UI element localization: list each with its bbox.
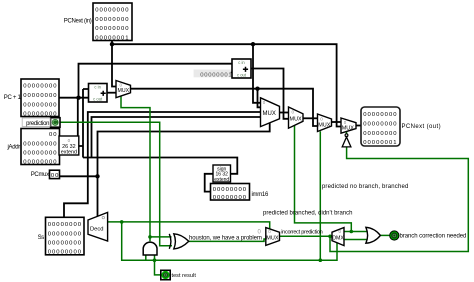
mux MUX_E (341, 118, 356, 133)
adder U1 (PC+1 + extended jAddr) (89, 84, 108, 103)
wire: MUX_B in3 line, vertical down then right to imm16 input (92, 117, 261, 192)
green wire: MUX_F out to DMX input (280, 235, 333, 237)
mux MUX_B (4 inputs) (261, 98, 280, 127)
svg-text:00000000: 00000000 (213, 187, 247, 193)
demux DMX (332, 228, 344, 246)
svg-text:c in: c in (94, 85, 101, 90)
wire: MUX_B in2 line, vertical down to Ss box (64, 112, 261, 217)
wire: branch down at x=256.5 to MUX_B in1 (258, 89, 261, 108)
svg-text:00000000: 00000000 (23, 112, 57, 118)
or gate (366, 227, 381, 243)
svg-text:MUX: MUX (266, 236, 279, 242)
svg-text:prediction: prediction (26, 121, 49, 127)
wire: PC+1 branch up to adder2 upper input (78, 64, 232, 146)
mux MUX_D (318, 114, 332, 132)
green wire: XOR out to MUX_F in1 (189, 239, 266, 241)
svg-text:test result: test result (172, 273, 197, 279)
bit extender 26 to 32 (59, 136, 79, 156)
svg-text:predicted branched, didn't bra: predicted branched, didn't branch (263, 210, 353, 216)
green wire: NOT out to MUX_E select (346, 132, 348, 134)
wire: MUX_E out to PCNext(out) (356, 125, 361, 127)
svg-text:DMX: DMX (332, 235, 344, 241)
svg-text:00000000: 00000000 (95, 26, 129, 32)
wire: adder2 out down to MUX_C in1 (251, 69, 289, 119)
wire: MUX_B out to MUX_C in0 (280, 112, 289, 114)
wire: PCmux to big loop: MUX_B select and Decd input (60, 123, 270, 216)
wire: MUX_D out to MUX_E in0 (332, 121, 342, 123)
svg-text:00000001: 00000001 (95, 35, 129, 41)
mux MUX_C (289, 107, 304, 128)
wire: MUX_C out to MUX_D in0 (303, 117, 318, 119)
xor gate (facing right) (169, 234, 189, 249)
svg-text:c out: c out (93, 97, 103, 102)
svg-text:00000000: 00000000 (23, 141, 57, 147)
input pin PC + 1 (21, 79, 59, 118)
svg-text:00000000: 00000000 (48, 241, 82, 247)
junction at (78.5,97.7) (76, 96, 80, 100)
junction at (112,44) (110, 42, 114, 46)
svg-text:Ss: Ss (38, 235, 45, 241)
svg-text:00000000: 00000000 (363, 121, 397, 127)
green wire: DMX out0 to OR in0 and loop to MUX_C select (295, 126, 368, 232)
green wire: MUX_D select from bottom run (319, 131, 321, 260)
wire: MUX_A out long run to MUX_D in1 (131, 89, 318, 126)
junction at Decd branch (120, 220, 124, 224)
label prediction (22, 118, 50, 126)
adder U2 (PC+1 + 1) (232, 59, 251, 78)
input pin PCmux (2 bits) (50, 170, 60, 179)
junction at (351.3,231.5) (350, 230, 354, 234)
svg-text:00000000: 00000000 (95, 17, 129, 23)
svg-text:predicted no branch, branched: predicted no branch, branched (322, 184, 409, 190)
decoder Decd (88, 212, 108, 241)
wire: drop at x=255 to MUX_B in0 (253, 44, 261, 103)
junction MUX_D select on bottom run (319, 258, 323, 262)
svg-text:PCNext (in): PCNext (in) (64, 19, 92, 25)
junction at (256.5,88.7) (255, 87, 259, 91)
svg-text:c in: c in (238, 60, 245, 65)
svg-text:MUX: MUX (118, 88, 130, 94)
input pin imm16 (211, 184, 250, 202)
input pin PCNext (in) (93, 3, 132, 41)
junction at (330,236.3) (328, 235, 332, 239)
svg-text:PCNext (out): PCNext (out) (402, 124, 441, 130)
output LED test result (161, 270, 170, 279)
mux MUX_A (116, 81, 131, 98)
green wire: AND inputs from bottom run (146, 255, 155, 260)
svg-text:00000000: 00000000 (23, 159, 57, 165)
svg-text:00000000: 00000000 (363, 112, 397, 118)
svg-text:00000000: 00000000 (95, 7, 129, 13)
svg-text:MUX: MUX (342, 126, 355, 132)
svg-text:00000000: 00000000 (23, 84, 57, 90)
svg-text:00000001: 00000001 (200, 72, 232, 78)
svg-text:00000000: 00000000 (23, 93, 57, 99)
green wire: DMX out1 to OR in1 (344, 239, 367, 241)
wire: PC+1 to adder1 lower input (59, 97, 89, 99)
not gate (inverter, facing up) (342, 134, 351, 147)
constant 00000001 (194, 70, 234, 79)
wire: adder1 out to MUX_A in1 (107, 92, 116, 94)
svg-text:00000000: 00000000 (48, 250, 82, 256)
wire: top long run y=44 to MUX_E in1 (112, 44, 341, 126)
input pin prediction (51, 118, 61, 128)
svg-text:PCmux: PCmux (31, 172, 49, 178)
svg-text:MUX: MUX (318, 123, 331, 129)
sign extender 16 to 32 (213, 165, 231, 183)
wire: PCNext(in) down to MUX_A in0 (112, 40, 116, 87)
wire: branch down x=86.5 to long mid horizontal to sign-extend out (83, 158, 237, 174)
green wire: big loop incorrect prediction to NOT gate (330, 147, 468, 252)
svg-text:extend: extend (214, 177, 229, 183)
svg-text:00000000: 00000000 (23, 102, 57, 108)
svg-text:MUX: MUX (290, 116, 303, 122)
svg-text:incorrect prediction: incorrect prediction (281, 230, 322, 236)
svg-text:extend: extend (61, 150, 77, 156)
green wire: Decd branch down to bottom long run, DMX select (122, 222, 337, 260)
svg-text:imm16: imm16 (252, 192, 269, 198)
green wire: MUX_A select down to AND output node, over to XOR upper input (121, 97, 172, 242)
output pin PCNext (out) (361, 107, 400, 146)
svg-text:houston, we have a problem: houston, we have a problem (189, 235, 262, 241)
svg-text:MUX: MUX (263, 111, 276, 117)
svg-text:00000000: 00000000 (48, 231, 82, 237)
svg-text:00000000: 00000000 (23, 151, 57, 157)
and gate (facing up) (143, 242, 157, 255)
svg-text:Decd: Decd (90, 226, 104, 232)
output LED branch correction needed (390, 231, 399, 240)
svg-text:c out: c out (237, 72, 247, 77)
mux MUX_F (266, 228, 280, 246)
green wire: OR out to LED (380, 234, 390, 236)
svg-text:00000000: 00000000 (48, 222, 82, 228)
svg-text:00000000: 00000000 (213, 195, 247, 201)
svg-text:00: 00 (51, 173, 60, 179)
junction AND output node (148, 235, 152, 239)
svg-text:jAddr: jAddr (6, 145, 20, 151)
input pin jAddr (26 bits) (21, 129, 60, 166)
green wire: Decd out to MUX_F select (top) (108, 222, 270, 229)
svg-text:00000000: 00000000 (363, 131, 397, 137)
input pin Ss (46, 217, 85, 255)
junction and branch to test result LED (153, 258, 157, 262)
junction at (97.5,176.3) (95, 174, 99, 178)
svg-text:00000001: 00000001 (363, 140, 397, 146)
svg-text:branch correction needed: branch correction needed (400, 234, 467, 240)
junction at (255,44) (251, 42, 255, 46)
svg-text:00: 00 (49, 132, 58, 138)
wire: extend26 out up to adder1 upper input (79, 89, 89, 158)
svg-text:PC + 1: PC + 1 (4, 95, 22, 101)
green wire: prediction to XOR lower input (60, 122, 173, 246)
